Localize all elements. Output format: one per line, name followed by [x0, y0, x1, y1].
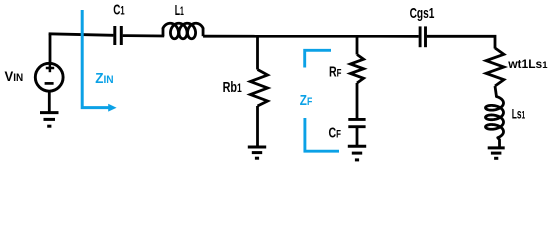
wire: Ls1 to ground: [498, 138, 500, 148]
wire: VIN top lead: [49, 34, 52, 63]
ground (Ls1): [488, 148, 505, 158]
svg-text:wt1Ls1: wt1Ls1: [507, 57, 548, 71]
impedance bracket ZF (bottom corner): [305, 118, 339, 151]
capacitor CF: [348, 119, 365, 126]
impedance bracket ZF (top corner): [305, 50, 331, 67]
node: junction Rb1: [256, 36, 259, 69]
svg-text:ZIN: ZIN: [95, 70, 114, 87]
svg-text:Ls1: Ls1: [512, 108, 525, 123]
node: junction RF: [356, 36, 359, 54]
ground (VIN): [40, 113, 59, 127]
ground (Rb1): [248, 147, 266, 158]
svg-text:Cgs1: Cgs1: [410, 5, 435, 21]
resistor wt1Ls1: [486, 48, 504, 86]
wire: C1 to L1: [123, 34, 165, 37]
inductor Ls1: [486, 97, 504, 138]
wire: VIN bottom lead: [48, 91, 51, 113]
wire: Cgs1 to right corner: [427, 36, 495, 48]
wire: main rail L1 to Cgs1: [203, 35, 419, 38]
wire: CF to ground: [356, 128, 359, 146]
ground (CF): [348, 146, 366, 160]
voltage source VIN: [35, 63, 63, 91]
resistor RF: [350, 55, 363, 84]
wire: top rail from VIN corner to C1: [49, 34, 114, 36]
resistor Rb1: [250, 70, 267, 107]
inductor L1: [163, 23, 203, 39]
capacitor C1: [115, 26, 122, 45]
wire: RF to CF: [356, 83, 359, 118]
capacitor Cgs1: [420, 26, 425, 47]
wire: resistor to Ls1: [495, 86, 496, 97]
impedance marker ZIN (probe line with arrow): [82, 10, 116, 112]
wire: Rb1 to ground: [256, 106, 259, 147]
